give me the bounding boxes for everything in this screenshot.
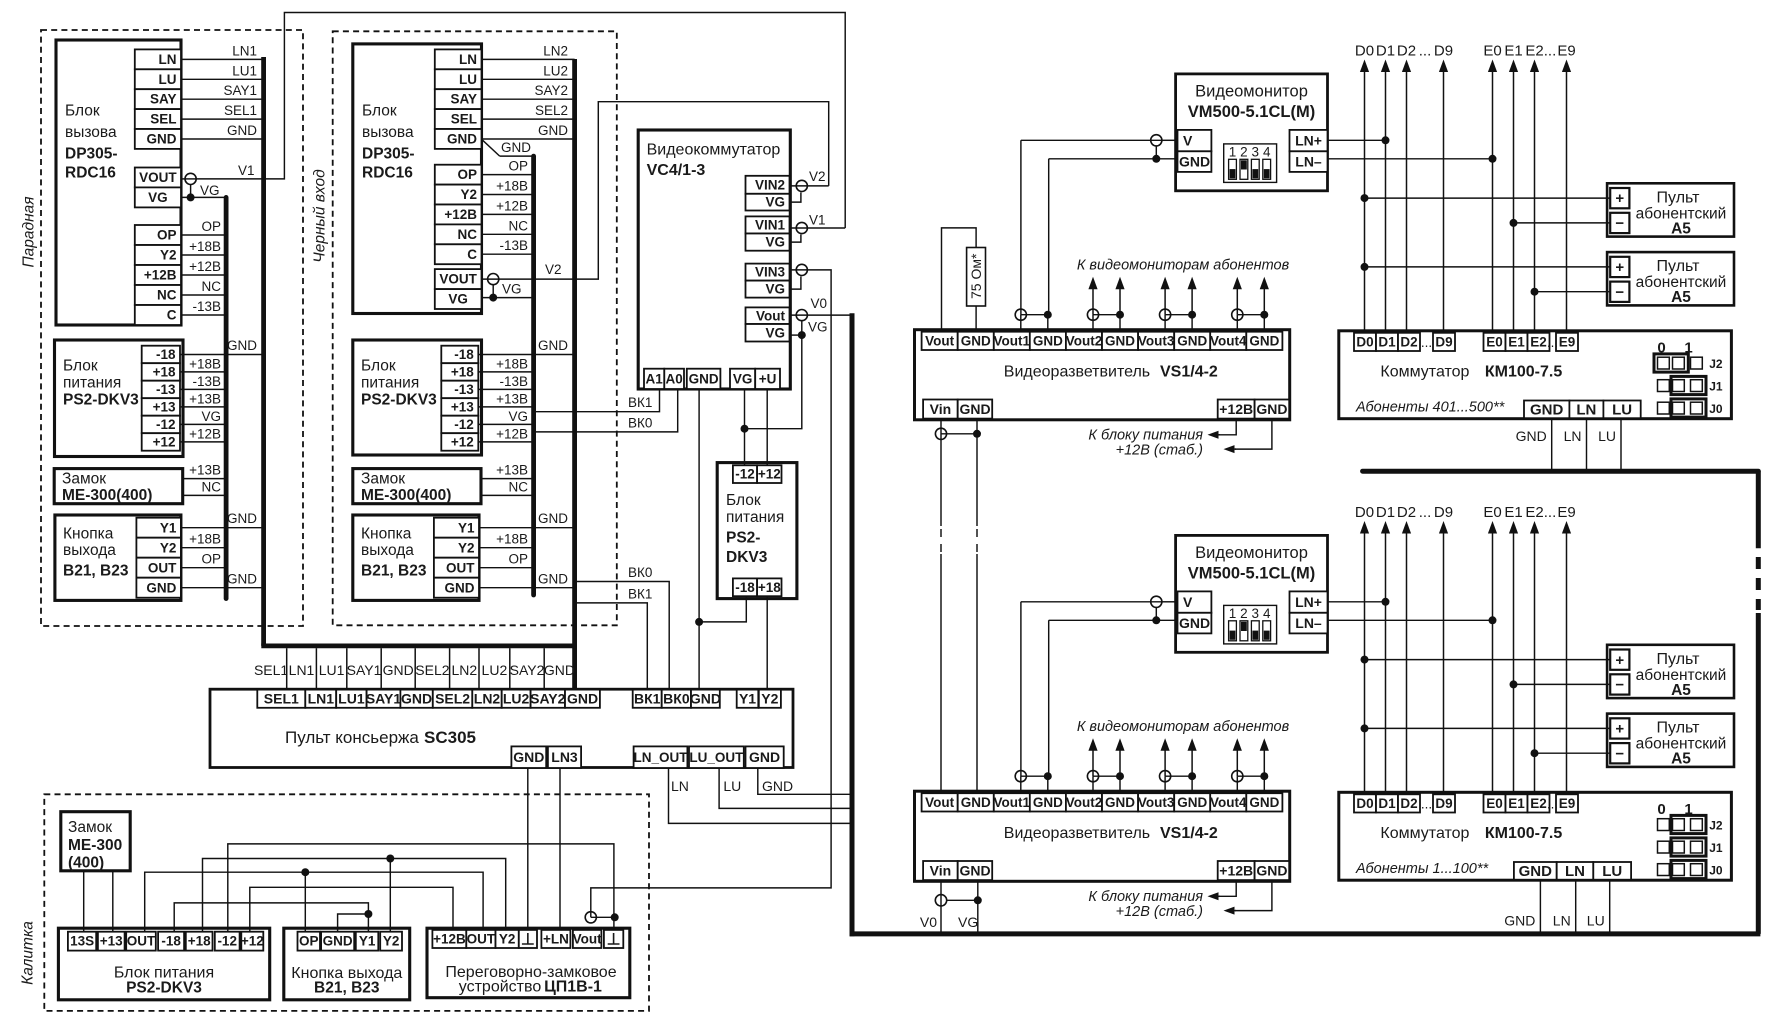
svg-text:Блок: Блок — [726, 492, 761, 509]
console pin LN1 — [305, 690, 336, 708]
wire + to D riser — [1365, 727, 1611, 729]
svg-text:Калитка: Калитка — [20, 921, 37, 985]
svg-text:...: ... — [1421, 335, 1432, 350]
svg-text:Замок: Замок — [62, 471, 106, 488]
pin E2 (KM100-2) — [1528, 794, 1550, 812]
svg-text:+13В: +13В — [496, 391, 528, 406]
svg-text:OP: OP — [508, 159, 528, 174]
svg-text:GND: GND — [1179, 615, 1210, 631]
pin +12В (block2) — [435, 205, 482, 225]
svg-text:A0: A0 — [665, 371, 682, 386]
svg-text:Y2: Y2 — [460, 187, 477, 202]
arrow to subscriber monitor (GND2) — [1119, 284, 1121, 315]
pin -18 (gate PS) — [158, 932, 184, 951]
svg-text:+12В: +12В — [189, 426, 221, 441]
svg-text:V2: V2 — [545, 262, 562, 277]
svg-text:А5: А5 — [1671, 289, 1691, 306]
dashed enclosure Paradnaya — [41, 30, 303, 626]
pin LN (block2) — [435, 49, 482, 69]
svg-text:GND: GND — [567, 691, 598, 707]
svg-text:Vout2: Vout2 — [1066, 795, 1103, 810]
cable bus (Paradnaya lock/power harness) — [224, 197, 229, 598]
wire NC (lock1) — [183, 494, 226, 496]
wire - to E riser — [1535, 291, 1611, 293]
pin GND (VS2 top) — [1102, 793, 1138, 811]
wire LU (console to trunk) — [719, 768, 850, 808]
svg-text:LN: LN — [1565, 863, 1585, 880]
svg-text:GND: GND — [1177, 333, 1207, 348]
lock ME-300(400) #1 — [54, 469, 183, 504]
svg-text:Y1: Y1 — [160, 520, 177, 535]
svg-text:+12: +12 — [758, 467, 781, 482]
wire ground drop to splitter GND (VM1) — [1048, 159, 1050, 311]
wire -13В (PS1) — [180, 388, 226, 390]
svg-text:VC4/1-3: VC4/1-3 — [647, 162, 706, 179]
pin D0 (KM100-1) — [1354, 333, 1376, 351]
svg-text:SAY1: SAY1 — [223, 83, 257, 98]
svg-text:-13В: -13В — [499, 374, 528, 389]
svg-text:VG: VG — [765, 195, 785, 210]
wire LN- (VM1 to E0) — [1328, 158, 1493, 160]
exit button B21,B23 #2 — [353, 515, 479, 600]
svg-text:SEL2: SEL2 — [535, 103, 568, 118]
wire lock to +13 — [112, 871, 114, 932]
pin GND (VS1 top) — [1174, 332, 1210, 350]
console pin GND — [400, 690, 432, 708]
svg-text:−: − — [1615, 745, 1624, 762]
pin +13 (PS2) — [441, 398, 478, 416]
wire LU (KM100-1 to trunk) — [1620, 418, 1622, 469]
pin +12 (PS3) — [757, 465, 781, 483]
svg-text:VOUT: VOUT — [439, 272, 477, 287]
svg-text:LU: LU — [1602, 863, 1622, 880]
svg-text:OUT: OUT — [467, 932, 496, 947]
wire +18В (block2) — [482, 194, 534, 196]
svg-text:+12В: +12В — [496, 198, 528, 213]
pin D1 (KM100-2) — [1376, 794, 1398, 812]
svg-text:+13В: +13В — [189, 463, 221, 478]
svg-text:Vin: Vin — [930, 862, 952, 878]
svg-text:-12: -12 — [217, 934, 237, 949]
svg-text:J1: J1 — [1709, 380, 1723, 394]
svg-text:+12В: +12В — [444, 207, 477, 222]
svg-text:GND: GND — [513, 749, 544, 765]
svg-text:D9: D9 — [1435, 335, 1452, 350]
wire D2 (riser) — [1406, 67, 1408, 333]
svg-text:E0: E0 — [1486, 796, 1503, 811]
pin NC (block2) — [435, 224, 482, 244]
svg-text:LN+: LN+ — [1295, 132, 1322, 148]
pin -12 (gate PS) — [215, 932, 240, 951]
subscriber handset A5 (group 2.2) — [1607, 714, 1734, 767]
svg-text:К видеомониторам абонентов: К видеомониторам абонентов — [1077, 719, 1290, 735]
wire OP (button2 OUT) — [479, 567, 534, 569]
pin Y1 (button2) — [434, 518, 479, 538]
dashed enclosure Cherny vhod — [333, 31, 617, 625]
svg-text:+12В: +12В — [1219, 862, 1253, 878]
svg-text:питания: питания — [726, 509, 784, 526]
svg-text:...: ... — [1419, 504, 1432, 521]
svg-text:D2: D2 — [1397, 42, 1416, 59]
pin Y2 (TsP1V-1) — [496, 930, 519, 948]
cell separator — [286, 648, 288, 689]
svg-text:4: 4 — [1263, 606, 1271, 621]
svg-text:VM500-5.1CL(M): VM500-5.1CL(M) — [1188, 565, 1315, 583]
svg-text:-12: -12 — [735, 467, 755, 482]
svg-text:GND: GND — [689, 371, 719, 386]
svg-text:LU1: LU1 — [338, 691, 365, 707]
pin GND2 (VS1) — [1255, 400, 1290, 419]
pin GND (VS1 top) — [958, 332, 994, 350]
svg-text:D9: D9 — [1435, 796, 1452, 811]
pin E0 (KM100-2) — [1484, 794, 1506, 812]
svg-text:+LN: +LN — [543, 932, 569, 947]
svg-text:+18: +18 — [451, 365, 474, 380]
wire SEL2 — [482, 118, 575, 120]
pin VIN2 (VC4) — [746, 176, 790, 194]
svg-text:V0: V0 — [920, 914, 937, 930]
trunk cable break (dashes) — [1756, 557, 1761, 610]
arrow to power supply — [1214, 895, 1221, 897]
arrow to subscriber monitor (Vout4) — [1236, 745, 1238, 776]
pin Vout2 (VS2 top) — [1066, 793, 1102, 811]
wire ground drop to splitter GND (VM2) — [1048, 620, 1050, 772]
svg-text:E2: E2 — [1525, 42, 1543, 59]
wire E0 (riser) — [1492, 67, 1494, 333]
power supply PS2-DKV3 #2 — [353, 340, 482, 455]
wire BK0 (bus to VC4 A0) — [536, 389, 678, 432]
wire GND (button2 Y1) — [479, 527, 575, 529]
DIP switch block (VM1) — [1224, 144, 1277, 183]
pin E9 (KM100-2) — [1556, 794, 1578, 812]
svg-text:ВК0: ВК0 — [628, 565, 652, 580]
svg-text:GND: GND — [538, 123, 568, 138]
wire NC (lock2) — [481, 494, 534, 496]
svg-text:GND: GND — [1519, 863, 1553, 880]
svg-text:КМ100-7.5: КМ100-7.5 — [1485, 825, 1562, 842]
arrow to subscriber monitor (GND4) — [1263, 284, 1265, 315]
svg-text:−: − — [1615, 215, 1624, 232]
cable bus (Cherny console harness) — [572, 59, 577, 689]
svg-text:SAY: SAY — [150, 92, 177, 107]
VG shield hook — [790, 192, 801, 202]
svg-text:GND: GND — [401, 691, 432, 707]
arrow to subscriber monitor (GND3) — [1191, 745, 1193, 776]
svg-text:-12: -12 — [156, 417, 176, 432]
wire V (VM2 to splitter) — [1021, 601, 1162, 603]
pin OUT (TsP1V-1) — [466, 930, 495, 948]
lock ME-300(400) #2 — [353, 469, 481, 504]
svg-text:+12: +12 — [241, 934, 264, 949]
wire gate button OP up to rail R3 — [304, 872, 306, 932]
svg-text:SC305: SC305 — [424, 728, 476, 747]
svg-text:E9: E9 — [1559, 335, 1576, 350]
trunk cable upper segment (KM100-1 harness) — [1363, 469, 1759, 474]
cell separator — [478, 648, 480, 689]
svg-text:VG: VG — [808, 320, 828, 335]
svg-text:LU: LU — [1612, 402, 1632, 419]
svg-text:1: 1 — [1229, 145, 1237, 160]
svg-text:Y2: Y2 — [458, 540, 475, 555]
video monitor VM500-5.1CL(M) #1 — [1176, 74, 1328, 191]
svg-text:Y1: Y1 — [739, 691, 756, 707]
wire LN (console to trunk) — [669, 768, 850, 823]
svg-text:Y1: Y1 — [458, 520, 475, 535]
terminal VIN2 (VC4) — [790, 185, 808, 187]
svg-text:VIN2: VIN2 — [755, 177, 785, 192]
svg-text:VS1/4-2: VS1/4-2 — [1160, 825, 1218, 842]
wire D0 (riser) — [1364, 528, 1366, 794]
console pin GND — [565, 690, 600, 708]
pin E0 (KM100-1) — [1484, 333, 1506, 351]
arrow to subscriber monitor (Vout3) — [1164, 745, 1166, 776]
wire NC (block2) — [482, 233, 534, 235]
wire +12B to power note — [1219, 419, 1236, 435]
svg-text:GND: GND — [1105, 333, 1135, 348]
pin Y2 (block1) — [135, 245, 181, 265]
svg-text:вызова: вызова — [65, 124, 117, 141]
wire GND (KM100-2 to trunk) — [1539, 880, 1541, 932]
pin E1 (KM100-2) — [1506, 794, 1528, 812]
svg-text:...: ... — [1547, 797, 1558, 812]
svg-text:Пульт: Пульт — [1657, 258, 1701, 275]
pin VG (block1) — [135, 187, 181, 207]
pin C (block1) — [135, 305, 181, 325]
svg-text:OP: OP — [201, 551, 221, 566]
svg-text:VG: VG — [502, 282, 522, 297]
cable bus (Cherny lock/power harness) — [531, 156, 536, 595]
svg-text:OP: OP — [299, 934, 319, 949]
wire + to D riser — [1365, 266, 1611, 268]
svg-text:GND: GND — [749, 749, 780, 765]
svg-text:J2: J2 — [1709, 819, 1723, 833]
svg-text:GND: GND — [1033, 795, 1063, 810]
pin GND (VS2) — [958, 861, 993, 880]
svg-text:VG: VG — [201, 409, 221, 424]
svg-text:D1: D1 — [1376, 504, 1395, 521]
wire LN+ (VM2 to D1) — [1328, 601, 1386, 603]
pin Vout4 (VS2 top) — [1210, 793, 1246, 811]
svg-text:А5: А5 — [1671, 220, 1691, 237]
svg-text:E2: E2 — [1530, 796, 1547, 811]
wire -18 (PS3 to GND line) — [699, 596, 746, 622]
pin VG (VC4) — [746, 281, 790, 298]
coax terminal pair Vout1 (VS2) — [1021, 775, 1048, 777]
wire VG block2 — [482, 297, 534, 299]
wire V0 (VS2 Vin to trunk) — [940, 880, 942, 931]
svg-text:LU: LU — [159, 72, 177, 87]
svg-text:VG: VG — [733, 371, 753, 386]
svg-text:V: V — [1183, 132, 1193, 148]
pin + (handset) — [1610, 650, 1629, 670]
svg-text:NC: NC — [509, 218, 529, 233]
svg-text:SAY1: SAY1 — [366, 691, 402, 707]
pin D9 (KM100-2) — [1433, 794, 1455, 812]
call block DP305-RDC16 #1 — [56, 40, 181, 325]
svg-text:GND: GND — [147, 132, 177, 147]
pin -13 (PS2) — [441, 381, 478, 399]
wire +18B (button2 Y2) — [479, 547, 534, 549]
pin Y2 (button2) — [434, 538, 479, 558]
svg-text:E1: E1 — [1504, 42, 1522, 59]
svg-text:+: + — [1615, 721, 1624, 738]
pin Vout1 (VS1 top) — [994, 332, 1030, 350]
svg-text:GND: GND — [227, 571, 257, 586]
pin + (handset) — [1610, 257, 1629, 277]
svg-text:+18В: +18В — [496, 531, 528, 546]
svg-text:+18В: +18В — [496, 179, 528, 194]
svg-text:GND: GND — [323, 934, 353, 949]
wire +18 (PS3 to console Y2) — [766, 596, 768, 689]
svg-text:+12В: +12В — [144, 268, 177, 283]
power supply PS2-DKV3 (gate) — [58, 928, 269, 1000]
svg-text:Y2: Y2 — [761, 691, 778, 707]
cell separator — [543, 648, 545, 689]
wire VG (VS2 GND to trunk) — [977, 880, 979, 931]
svg-text:Коммутатор: Коммутатор — [1380, 364, 1469, 381]
wire +13B (lock1) — [183, 478, 226, 480]
DIP switch block (VM2) — [1224, 605, 1277, 644]
svg-text:SEL: SEL — [451, 112, 477, 127]
video splitter VS1/4-2 #2 — [915, 791, 1290, 881]
svg-text:PS2-DKV3: PS2-DKV3 — [63, 392, 139, 409]
svg-text:RDC16: RDC16 — [362, 165, 413, 182]
svg-text:В21, В23: В21, В23 — [314, 980, 380, 997]
svg-text:+12В: +12В — [433, 932, 466, 947]
pin LU (KM100-2 bottom) — [1593, 862, 1631, 880]
pin OUT (button2) — [434, 558, 479, 578]
wire OP (block2) — [482, 174, 534, 176]
power supply PS2-DKV3 #3 — [717, 463, 797, 599]
pin LN (KM100-2 bottom) — [1557, 862, 1594, 880]
console pin SEL1 — [257, 690, 305, 708]
svg-text:GND: GND — [383, 662, 414, 678]
video monitor VM500-5.1CL(M) #2 — [1176, 535, 1328, 652]
pin LN+ (VM1) — [1290, 130, 1328, 151]
svg-text:⊥: ⊥ — [521, 931, 535, 948]
svg-text:Пульт: Пульт — [1657, 720, 1701, 737]
wire V0 (VC4 Vout to trunk) — [807, 314, 850, 316]
svg-text:Vout: Vout — [573, 932, 602, 947]
svg-text:LN2: LN2 — [543, 43, 568, 58]
svg-text:VOUT: VOUT — [139, 170, 177, 185]
wire GND (VM2 to splitter) — [1049, 619, 1157, 621]
pin ⊥ (TsP1V-1) — [519, 930, 537, 948]
terminal VOUT block1 — [181, 178, 196, 180]
pin GND (button1) — [136, 578, 181, 598]
svg-text:2: 2 — [1240, 606, 1248, 621]
svg-text:OP: OP — [457, 167, 477, 182]
svg-text:GND: GND — [961, 333, 991, 348]
svg-text:3: 3 — [1252, 145, 1260, 160]
coax terminal at VS1 Vin — [940, 419, 942, 526]
pin +18 (PS1) — [142, 363, 180, 381]
arrow to subscriber monitor (GND2) — [1119, 745, 1121, 776]
junction VG — [741, 425, 749, 433]
pin D2 (KM100-1) — [1398, 333, 1420, 351]
pin GND (VS2 top) — [958, 793, 994, 811]
wire +12В (block2) — [482, 213, 534, 215]
cable Vin (VS1) to Vout (VS2), with break — [940, 529, 942, 553]
svg-text:VS1/4-2: VS1/4-2 — [1160, 364, 1218, 381]
wire + to D riser — [1365, 197, 1611, 199]
pin SEL (block1) — [135, 109, 181, 129]
svg-text:LU2: LU2 — [503, 691, 530, 707]
wire +18В (PS2) — [478, 371, 533, 373]
pin + (handset) — [1610, 188, 1629, 208]
pin LN- (VM2) — [1290, 613, 1328, 634]
wire rail R2 (+18 to TsP1V-1 Y2) — [203, 859, 506, 932]
svg-text:SAY2: SAY2 — [534, 83, 568, 98]
call block DP305-RDC16 #2 — [353, 44, 482, 314]
pin - (handset) — [1610, 743, 1629, 763]
svg-text:VM500-5.1CL(M): VM500-5.1CL(M) — [1188, 103, 1315, 121]
cell separator — [315, 648, 317, 689]
wire GND (button1 Y1) — [181, 527, 264, 529]
svg-text:RDC16: RDC16 — [65, 165, 116, 182]
svg-text:D1: D1 — [1376, 42, 1395, 59]
svg-text:J2: J2 — [1709, 357, 1723, 371]
svg-text:PS2-DKV3: PS2-DKV3 — [126, 980, 202, 997]
wire GND (console to trunk) — [758, 768, 850, 794]
pin LU (KM100-1 bottom) — [1603, 401, 1640, 419]
exit button B21,B23 (gate) — [284, 928, 410, 1000]
cell separator — [509, 648, 511, 689]
svg-text:Vout4: Vout4 — [1210, 333, 1247, 348]
wire VG (Vout shield to -12) — [745, 335, 802, 429]
svg-text:-12: -12 — [454, 417, 474, 432]
wire -13В (block1) — [181, 314, 226, 316]
power supply PS2-DKV3 #1 — [55, 340, 184, 457]
concierge console SC305 — [210, 689, 793, 767]
cable GND (VS1) to GND (VS2), with break — [976, 434, 978, 526]
svg-text:D2: D2 — [1397, 504, 1416, 521]
svg-text:SAY1: SAY1 — [347, 662, 382, 678]
pin SEL (block2) — [435, 109, 482, 129]
pin -18 (PS2) — [441, 346, 478, 364]
svg-text:Vout2: Vout2 — [1066, 333, 1103, 348]
wire console GND to TsP1V-1 ground pin — [527, 768, 529, 930]
wire D1 (riser) — [1385, 67, 1387, 333]
console pin SAY1 — [367, 690, 401, 708]
svg-text:Кнопка: Кнопка — [63, 526, 114, 543]
svg-text:LN: LN — [1564, 428, 1582, 444]
arrow to power supply (GND) — [1230, 448, 1237, 450]
svg-text:D9: D9 — [1434, 504, 1453, 521]
pin GND (VC4 bottom) — [687, 369, 721, 389]
svg-text:V1: V1 — [809, 213, 826, 228]
svg-text:VG: VG — [200, 183, 220, 198]
svg-text:E0: E0 — [1486, 335, 1503, 350]
terminal VIN3 (VC4) — [790, 269, 808, 271]
wire +18В (block1) — [181, 254, 226, 256]
wire rail R5 (-18 to gate button Y1) — [174, 903, 368, 932]
svg-text:...: ... — [1544, 504, 1557, 521]
wire E1 (riser) — [1513, 528, 1515, 794]
svg-text:-13В: -13В — [192, 374, 221, 389]
pin LN (block1) — [135, 49, 181, 69]
terminal Vout (VC4) — [790, 314, 808, 316]
junction VS1 GND — [973, 430, 981, 438]
wire V2 stub to VIN2 — [807, 185, 829, 187]
svg-text:SEL2: SEL2 — [415, 662, 449, 678]
console pin Y2 — [759, 690, 781, 708]
svg-text:Абоненты 401...500**: Абоненты 401...500** — [1355, 400, 1506, 416]
wire lock to 13S — [83, 871, 85, 932]
svg-text:NC: NC — [202, 479, 222, 494]
svg-text:OP: OP — [201, 219, 221, 234]
svg-text:-18: -18 — [156, 347, 176, 362]
